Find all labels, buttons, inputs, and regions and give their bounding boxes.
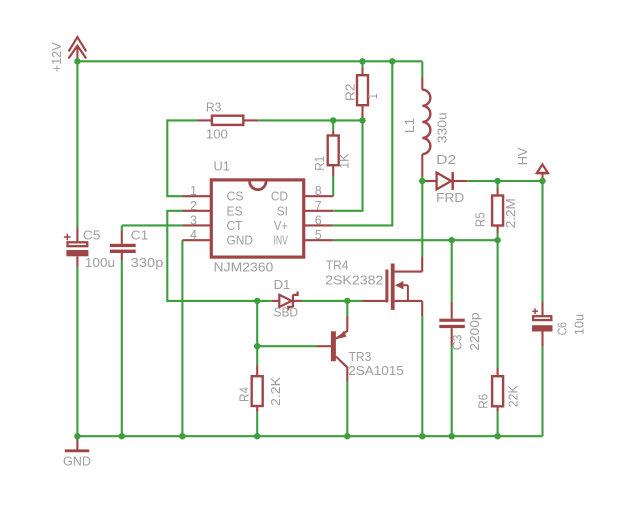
resistor R3 pin right — [243, 119, 258, 121]
wire C1 bottom to rail — [121, 261, 123, 437]
transistor TR3 collector pin — [336, 357, 347, 382]
node rail C3 junction — [449, 433, 455, 439]
wire +12V top rail — [77, 60, 422, 62]
svg-text:ES: ES — [227, 204, 243, 218]
svg-text:2SK2382: 2SK2382 — [325, 274, 383, 288]
capacitor C6 pin top — [541, 302, 543, 315]
transistor TR4 gate pin — [363, 300, 386, 302]
wire C5 bottom to ground rail — [76, 267, 78, 436]
op-amp U1 pin 2 stub — [183, 210, 212, 212]
svg-text:3: 3 — [190, 213, 197, 227]
node V+ top junction — [389, 58, 395, 64]
node R2 bottom junction — [359, 117, 365, 123]
wire L1 bottom to D2 anode node — [421, 177, 423, 182]
wire node down to TR3 emitter — [346, 301, 348, 316]
node rail C1 junction — [119, 433, 125, 439]
wire INV node down to C3 — [451, 240, 453, 301]
capacitor C5 pin top — [76, 227, 78, 241]
op-amp U1 pin 7 stub — [304, 210, 334, 212]
svg-text:+12V: +12V — [50, 42, 64, 73]
svg-text:CD: CD — [271, 190, 288, 204]
ground symbol bar — [65, 449, 89, 452]
node HV junction — [539, 178, 545, 184]
capacitor C3 pin top — [451, 301, 453, 318]
wire node R1 to node R2 — [333, 119, 362, 121]
node rail TR4 junction — [419, 433, 425, 439]
svg-text:330p: 330p — [131, 256, 164, 270]
wire pin3 CT to C1 top — [122, 225, 183, 231]
svg-text:INV: INV — [274, 234, 289, 248]
svg-text:2SA1015: 2SA1015 — [348, 364, 404, 378]
HV symbol stem — [541, 173, 543, 178]
resistor R5 pin top — [497, 188, 499, 196]
svg-text:R5: R5 — [473, 212, 487, 227]
wire R1 top stub green — [332, 120, 334, 131]
diode D1 pin anode — [272, 300, 279, 302]
wire pin4 GND down to rail — [181, 240, 183, 436]
capacitor C1 pin top — [121, 231, 123, 244]
svg-text:R6: R6 — [477, 394, 491, 409]
resistor R3 body — [212, 116, 243, 125]
wire HV node down to C6 — [541, 181, 543, 302]
wire pin5 INV row to R5 bottom — [333, 239, 497, 241]
svg-text:6: 6 — [315, 213, 322, 227]
inductor L1 pin top — [421, 77, 423, 90]
capacitor C5 pin bottom — [76, 256, 78, 267]
svg-text:8: 8 — [315, 184, 322, 198]
op-amp U1 pin 8 stub — [304, 195, 334, 197]
svg-text:R1: R1 — [313, 156, 327, 171]
svg-text:2200p: 2200p — [468, 312, 482, 350]
transistor TR4 source pin — [395, 301, 423, 316]
svg-text:D1: D1 — [274, 278, 291, 292]
svg-text:C6: C6 — [556, 322, 570, 335]
node R2 top junction — [359, 58, 365, 64]
diode D1 pin cathode — [294, 300, 302, 302]
resistor R2 pin bottom — [361, 105, 363, 119]
wire R4 bottom to rail — [256, 412, 258, 437]
node TR3 base junction — [254, 343, 260, 349]
resistor R4 pin top — [256, 366, 258, 377]
wire R3 left to pin1 CS — [167, 120, 197, 196]
svg-text:1: 1 — [190, 184, 197, 198]
svg-text:C3: C3 — [451, 334, 465, 350]
transistor TR4 channel bar — [391, 264, 395, 310]
svg-text:100: 100 — [206, 128, 228, 142]
resistor R5 body — [492, 196, 503, 226]
svg-text:22K: 22K — [506, 385, 520, 408]
op-amp U1 pin 3 stub — [183, 224, 212, 226]
resistor R4 pin bottom — [256, 406, 258, 412]
svg-text:7: 7 — [315, 199, 322, 213]
diode D2 cathode bar — [451, 172, 454, 190]
wire R2 top to rail — [361, 61, 363, 67]
svg-text:SI: SI — [277, 204, 288, 218]
op-amp U1 body NJM2360 — [211, 180, 303, 257]
resistor R3 pin left — [197, 119, 212, 121]
wire R3 right to R1 top node — [258, 119, 333, 121]
wire base node to TR3 base — [257, 345, 317, 347]
wire INV node down to R6 top — [497, 240, 499, 368]
resistor R6 pin bottom — [497, 406, 499, 411]
svg-text:TR4: TR4 — [326, 259, 349, 273]
resistor R6 body — [492, 376, 503, 406]
svg-text:5: 5 — [315, 228, 322, 242]
op-amp U1 pin 1 stub — [183, 195, 212, 197]
node D2-R5 junction — [494, 178, 500, 184]
svg-text:U1: U1 — [214, 159, 230, 173]
wire TR4 source down to rail — [421, 316, 423, 436]
transistor TR3 base bar — [331, 331, 336, 361]
node INV-R5 junction — [494, 237, 500, 243]
svg-text:2.2M: 2.2M — [504, 198, 518, 228]
svg-text:CT: CT — [227, 219, 243, 233]
svg-text:1: 1 — [366, 93, 380, 99]
wire D2 node down to TR4 drain — [421, 181, 423, 257]
wire ground bottom rail — [77, 435, 542, 437]
capacitor C6 plus sign — [532, 308, 538, 314]
resistor R1 pin top — [332, 131, 334, 136]
svg-text:GND: GND — [63, 454, 91, 468]
transistor TR4 drain pin — [395, 257, 423, 272]
wire C3 bottom to rail — [451, 346, 453, 436]
wire C6 bottom to rail corner — [541, 347, 543, 437]
wire R6 bottom to rail — [497, 412, 499, 437]
wire D2 cathode to HV node — [467, 180, 542, 182]
wire pin6 V+ up to top rail — [333, 61, 392, 225]
svg-text:C1: C1 — [131, 229, 149, 243]
inductor L1 coil — [422, 90, 430, 154]
svg-text:C5: C5 — [83, 229, 101, 243]
inductor L1 pin bottom — [421, 154, 423, 176]
svg-text:V+: V+ — [274, 219, 288, 233]
diode D2 pin anode — [422, 180, 436, 182]
node rail R4 junction — [254, 433, 260, 439]
svg-text:GND: GND — [227, 234, 253, 248]
resistor R2 body — [357, 75, 368, 105]
wire R1 bottom to pin8 stub — [332, 176, 334, 196]
capacitor C5 plates polarized — [66, 242, 88, 256]
wire node to TR4 gate — [347, 300, 362, 302]
wire +12V column to C5 — [76, 61, 78, 227]
capacitor C1 pin bottom — [121, 253, 123, 261]
resistor R1 pin bottom — [332, 165, 334, 176]
svg-text:D2: D2 — [436, 153, 456, 167]
op-amp U1 pin 6 stub — [304, 224, 334, 226]
HV symbol base line — [536, 172, 549, 174]
op-amp U1 pin 5 stub — [304, 239, 334, 241]
node rail R6 junction — [494, 433, 500, 439]
+12V symbol stem — [76, 47, 78, 59]
diode D2 pin cathode — [453, 180, 467, 182]
node rail GND junction — [74, 433, 80, 439]
diode D2 triangle — [437, 173, 452, 190]
svg-text:R4: R4 — [238, 387, 252, 402]
wire pin7 SI up to R2 bottom node — [333, 120, 362, 210]
node INV-C3 junction — [449, 237, 455, 243]
svg-text:R3: R3 — [206, 101, 222, 115]
resistor R1 body — [328, 136, 339, 166]
svg-text:CS: CS — [227, 190, 244, 204]
capacitor C6 pin bottom — [541, 332, 543, 347]
svg-text:4: 4 — [190, 228, 197, 242]
capacitor C3 plates — [439, 319, 465, 328]
svg-text:TR3: TR3 — [349, 350, 372, 364]
transistor TR3 emitter pin — [336, 316, 347, 339]
node R1 top junction — [330, 117, 336, 123]
wire base node down to R4 — [256, 346, 258, 365]
svg-text:L1: L1 — [403, 118, 417, 133]
capacitor C1 plates — [110, 244, 136, 253]
svg-text:1K: 1K — [337, 153, 351, 169]
capacitor C3 pin bottom — [451, 328, 453, 346]
svg-text:100u: 100u — [85, 256, 115, 270]
svg-text:FRD: FRD — [436, 191, 464, 205]
diode D1 triangle — [279, 295, 291, 307]
resistor R4 body — [252, 376, 263, 406]
wire D1 cathode to TR3/TR4 node — [302, 300, 347, 302]
svg-text:10u: 10u — [573, 314, 587, 335]
wire D1 node down to base node — [256, 301, 258, 346]
svg-text:2: 2 — [190, 199, 197, 213]
resistor R5 pin bottom — [497, 226, 499, 234]
node rail TR3 junction — [344, 433, 350, 439]
node L1-D2 junction — [419, 178, 425, 184]
svg-text:R2: R2 — [343, 84, 357, 101]
node D1-TR3-TR4 junction — [344, 298, 350, 304]
capacitor C5 plus sign — [64, 234, 71, 241]
svg-text:2.2K: 2.2K — [269, 376, 283, 406]
svg-text:NJM2360: NJM2360 — [214, 260, 274, 274]
node +12V junction — [74, 58, 80, 64]
wire L1 top green — [421, 61, 423, 77]
transistor TR3 emitter arrow — [337, 331, 346, 339]
node D1 anode junction — [254, 298, 260, 304]
transistor TR4 gate bar — [385, 270, 388, 303]
node rail pin4 junction — [179, 433, 185, 439]
HV supply symbol triangle — [537, 164, 548, 173]
resistor R6 pin top — [497, 368, 499, 376]
svg-text:330u: 330u — [436, 112, 450, 143]
op-amp U1 pin 4 stub — [183, 239, 212, 241]
+12V supply symbol double chevron — [69, 37, 86, 58]
ground symbol stem — [76, 439, 78, 451]
resistor R2 pin top — [361, 68, 363, 76]
diode D1 schottky bar — [288, 292, 297, 311]
op-amp U1 notch — [250, 181, 266, 189]
transistor TR4 substrate arrow — [395, 281, 408, 301]
wire R5 bottom to INV node — [497, 233, 499, 240]
wire TR3 collector to rail — [346, 381, 348, 436]
transistor TR3 base pin — [317, 345, 331, 347]
capacitor C6 plates polarized — [532, 316, 553, 331]
svg-text:SBD: SBD — [274, 305, 298, 319]
svg-text:HV: HV — [516, 147, 530, 165]
wire D2 node down to R5 top — [497, 181, 499, 188]
wire pin2 ES down to D1 row — [167, 211, 272, 301]
